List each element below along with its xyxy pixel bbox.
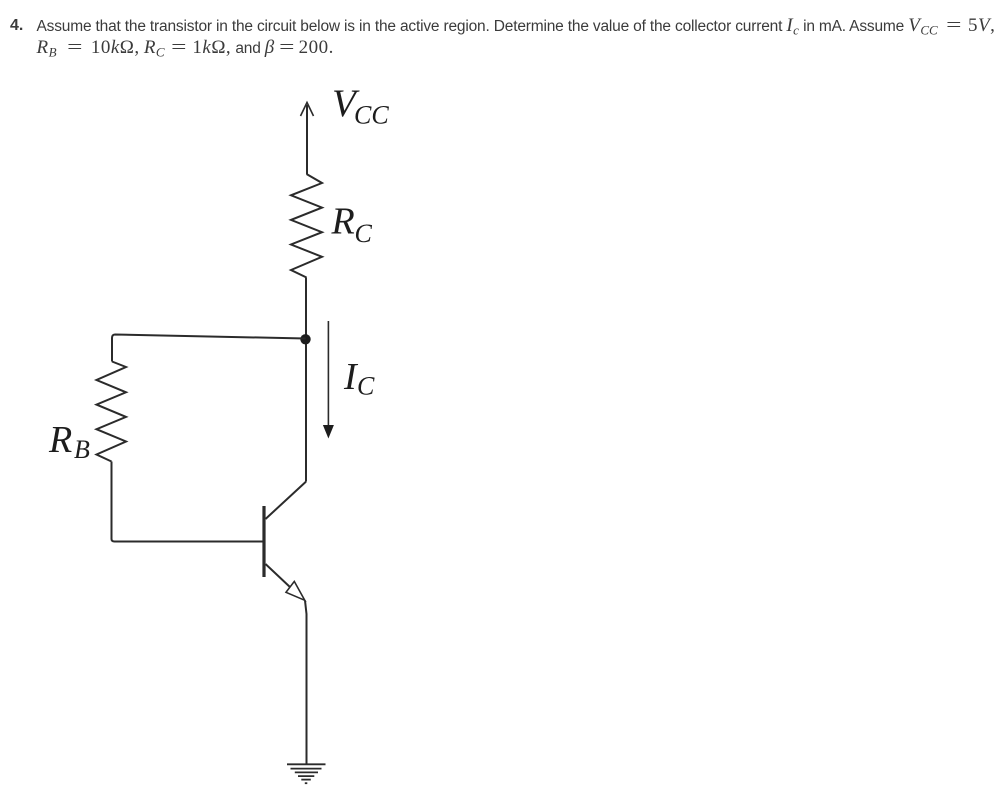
wire emitter to ground bbox=[305, 601, 307, 764]
svg-text:CC: CC bbox=[354, 101, 389, 130]
node collector junction bbox=[300, 334, 310, 344]
question text bbox=[10, 15, 23, 36]
svg-text:B: B bbox=[74, 435, 90, 464]
RC label bbox=[331, 201, 373, 249]
VCC arrow bbox=[301, 103, 314, 175]
wire junction to RB top bbox=[112, 335, 306, 362]
svg-text:R: R bbox=[48, 419, 72, 461]
svg-text:R: R bbox=[331, 201, 355, 243]
IC arrow bbox=[323, 321, 334, 439]
resistor RB bbox=[97, 362, 127, 462]
RB label bbox=[48, 419, 90, 464]
resistor RC bbox=[291, 174, 322, 278]
svg-text:C: C bbox=[357, 372, 375, 401]
wire RC to collector bbox=[305, 278, 307, 482]
IC label bbox=[343, 356, 375, 401]
ground bbox=[287, 764, 326, 783]
svg-text:C: C bbox=[355, 219, 373, 248]
transistor Q1 bbox=[264, 482, 306, 601]
wire RB bottom to base bbox=[112, 462, 263, 542]
VCC label bbox=[332, 82, 389, 130]
